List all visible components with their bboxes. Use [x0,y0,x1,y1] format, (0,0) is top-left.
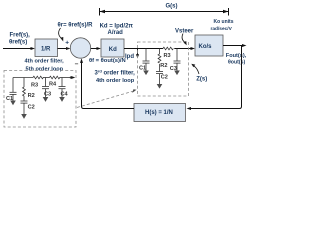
capacitor C3 (4th order filter) [42,78,49,98]
wire summer to Kd [91,48,100,50]
wire top rail (4th order filter) [13,77,71,79]
svg-text:G(s): G(s) [166,3,178,9]
svg-text:Ko units: Ko units [214,19,234,25]
capacitor C4 (4th order filter) [59,78,66,98]
resistor R2 (4th order filter) [23,78,26,102]
svg-text:Fref(s),: Fref(s), [10,32,31,38]
wire output arrow (4th order filter) [71,77,73,79]
svg-text:R4: R4 [49,82,57,88]
svg-text:H(s) = 1/N: H(s) = 1/N [145,110,173,116]
capacitor C1 (3rd order filter) [143,49,150,71]
resistor R4 (4th order filter, series) [50,76,60,79]
G(s) dimension line [100,8,229,16]
svg-text:A/rad: A/rad [108,30,124,36]
svg-text:θr= θref(s)/R: θr= θref(s)/R [58,22,94,28]
svg-text:R2: R2 [160,63,167,69]
3rd order filter dashed box [138,42,189,96]
svg-text:4th order filter,: 4th order filter, [25,59,65,65]
ground [157,84,163,89]
svg-text:+: + [65,40,69,47]
svg-text:1/R: 1/R [41,46,51,52]
svg-text:Ipd: Ipd [125,54,134,60]
svg-text:Vsteer: Vsteer [175,29,194,35]
svg-text:C4: C4 [61,91,69,97]
capacitor C2 (3rd order filter) [156,72,163,85]
capacitor C1 (4th order filter) [10,78,17,101]
wire Ipd current arrow [137,49,139,56]
resistor R3 (4th order filter, series) [33,76,43,79]
svg-text:Fout(s),: Fout(s), [226,53,247,59]
svg-text:R2: R2 [28,93,35,99]
wire feedback down and to H(s) [188,46,242,109]
wire 1/R to summer [58,48,70,50]
svg-text:Kd: Kd [109,47,117,53]
svg-text:Kd = Ipd/2π: Kd = Ipd/2π [100,23,134,29]
svg-text:R3: R3 [31,82,38,88]
wire dashed leader arrowhead [132,89,136,93]
4th order filter dashed box [4,71,76,128]
wire H(s) to summer minus [82,60,135,109]
svg-text:Z(s): Z(s) [196,76,207,82]
svg-text:5th order loop: 5th order loop [26,67,64,73]
svg-text:C3: C3 [44,91,51,97]
resistor R3 (3rd order filter, series) [163,47,173,50]
svg-text:4th order loop: 4th order loop [96,78,135,84]
summing junction [70,38,90,58]
ground [43,97,49,102]
resistor R2 (3rd order filter) [158,49,161,72]
capacitor C2 (4th order filter) [21,101,28,114]
wire output [223,45,245,47]
svg-text:C2: C2 [28,105,35,111]
wire Vsteer leader arrow [182,34,184,43]
ground [21,114,27,119]
svg-text:R3: R3 [164,53,171,59]
block 1/R [35,39,58,57]
svg-text:C1: C1 [139,65,146,71]
svg-text:C3: C3 [170,66,177,72]
capacitor C3 (3rd order filter) [174,49,181,71]
block H(s)=1/N [134,104,186,122]
svg-text:θf = θout(s)/N: θf = θout(s)/N [89,58,126,64]
ground [10,101,16,106]
ground [174,71,180,76]
svg-text:Ko/s: Ko/s [199,44,213,50]
node junction dot [70,76,72,78]
svg-text:−: − [75,61,79,68]
block Ko/s [195,35,223,56]
wire input to 1/R [3,48,34,50]
wire thetar leader arrow [59,28,61,38]
svg-text:rad/sec/V: rad/sec/V [211,26,233,32]
svg-text:θref(s): θref(s) [9,40,27,46]
ground [143,71,149,76]
svg-text:θout(s): θout(s) [228,60,245,66]
wire dashed leader to 3rd order box [77,91,133,107]
svg-text:C2: C2 [161,75,168,81]
block Kd [101,39,124,57]
svg-text:C1: C1 [6,96,13,102]
wire Z(s) leader arrow [194,66,199,74]
wire Kd to Ko/s (through filter, R3 in series) [124,48,194,50]
ground [59,97,65,102]
